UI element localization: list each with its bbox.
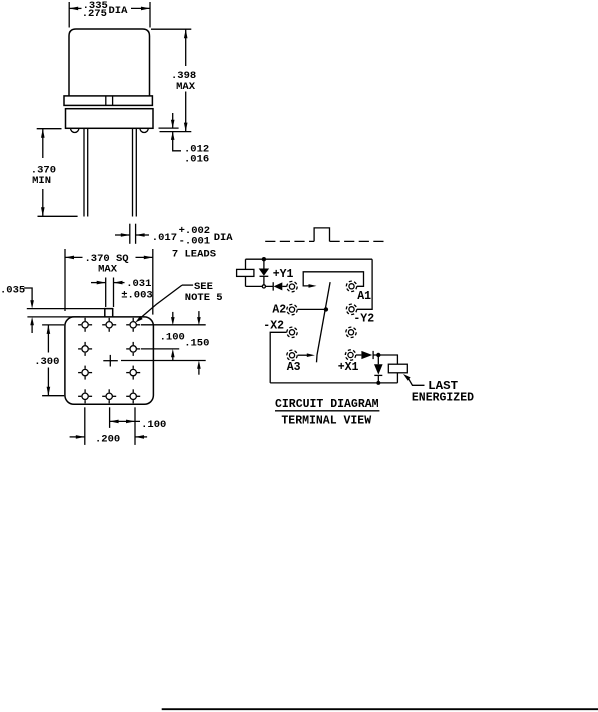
wire -X2 to bottom bus	[270, 332, 286, 383]
wire coil Y branch	[245, 259, 247, 286]
dimension .300 arrows	[47, 325, 49, 353]
diode CR4	[377, 355, 379, 364]
svg-text:MAX: MAX	[176, 81, 196, 93]
svg-text:ENERGIZED: ENERGIZED	[412, 392, 474, 405]
dimension .031 extension lines	[105, 278, 107, 308]
pin row3 col1	[78, 366, 92, 380]
switch armature	[317, 282, 331, 362]
svg-text:MAX: MAX	[98, 264, 118, 276]
dimension .370 MIN extension lines	[37, 128, 62, 130]
junction armature pivot	[324, 307, 328, 311]
dimension .150 arrows	[198, 311, 200, 317]
pin row4 col1	[78, 389, 92, 403]
terminal +X1	[345, 350, 355, 360]
svg-text:NOTE 5: NOTE 5	[185, 292, 223, 304]
svg-text:+Y1: +Y1	[273, 268, 294, 281]
svg-text:±.003: ±.003	[121, 290, 153, 302]
coil X	[388, 364, 407, 373]
bottom extension lines	[84, 407, 86, 445]
lead left	[83, 128, 85, 216]
svg-text:.100: .100	[141, 419, 166, 431]
relay can body	[69, 29, 150, 96]
svg-text:DIA: DIA	[214, 232, 234, 244]
dimension .370 SQ extension lines	[64, 249, 66, 311]
terminal A2	[287, 304, 297, 314]
pin row1 col1	[78, 318, 92, 332]
dimension .035 leader and arrows	[24, 288, 32, 301]
relay header base	[66, 109, 154, 129]
junction bottom bus	[376, 381, 380, 385]
svg-text:7 LEADS: 7 LEADS	[172, 248, 216, 260]
wire A1 to fixed contact	[303, 272, 363, 287]
leader LAST ENERGIZED	[403, 374, 411, 381]
center crosshair	[103, 360, 118, 362]
svg-text:TERMINAL VIEW: TERMINAL VIEW	[281, 415, 371, 428]
dimension .031 arrows	[91, 282, 106, 284]
pin row2 col1	[78, 342, 92, 356]
svg-text:.200: .200	[95, 434, 120, 446]
svg-text:-Y2: -Y2	[353, 313, 374, 326]
dimension .398 MAX extension line	[151, 28, 191, 30]
extension line base bottom upper	[159, 127, 179, 129]
extension line row2 right	[141, 348, 179, 350]
dimension .100 right arrows	[172, 312, 174, 318]
seal bump right	[140, 128, 148, 132]
case outline dashed right	[330, 240, 387, 242]
extension line tab top	[27, 308, 105, 310]
diode CR1	[263, 259, 265, 268]
relay can flange	[64, 96, 152, 106]
svg-text:MIN: MIN	[32, 175, 51, 187]
dimension .370 SQ arrows	[65, 256, 83, 258]
dimension .335/.275 DIA arrows	[69, 7, 81, 9]
footer rule	[162, 708, 598, 710]
svg-text:.035: .035	[0, 284, 25, 296]
terminal -X2	[287, 327, 297, 337]
svg-text:CIRCUIT DIAGRAM: CIRCUIT DIAGRAM	[275, 398, 379, 411]
svg-text:.017: .017	[152, 232, 177, 244]
dimension .017 extension lines	[129, 224, 131, 244]
node open circle	[262, 285, 265, 288]
pin row3 col3	[126, 366, 140, 380]
svg-text:.275: .275	[82, 8, 107, 20]
flange crimp marks	[105, 96, 107, 106]
svg-text:DIA: DIA	[109, 5, 129, 17]
dimension .370 MIN arrows	[42, 129, 44, 158]
wire to coil X	[378, 355, 397, 383]
pin row2 col3	[126, 342, 140, 356]
pin row4 col3	[126, 389, 140, 403]
pin row1 col3	[126, 318, 140, 332]
extension line row1 right	[141, 324, 206, 326]
wire A3 to fixed contact	[298, 354, 308, 356]
terminal center spare	[346, 327, 356, 337]
wire A2 to armature	[297, 308, 326, 310]
svg-text:-X2: -X2	[263, 320, 284, 333]
svg-text:.016: .016	[184, 154, 209, 166]
dimension .335/.275 DIA extension lines	[68, 2, 70, 28]
extension line center right	[121, 360, 206, 362]
case index tab	[314, 228, 329, 242]
extension line lead shoulder lower	[160, 131, 192, 133]
svg-text:A1: A1	[357, 290, 371, 303]
case outline dashed left	[265, 240, 314, 242]
svg-text:.150: .150	[184, 337, 209, 349]
terminal A1	[346, 281, 356, 291]
dimension .100 bottom arrows	[110, 420, 140, 422]
diode CR2	[272, 282, 274, 290]
svg-text:A3: A3	[287, 361, 301, 374]
index tab	[105, 309, 113, 317]
svg-text:.100: .100	[160, 332, 185, 344]
fixed contact arrow A3	[307, 353, 315, 357]
svg-text:A2: A2	[272, 304, 286, 317]
wire top bus	[246, 258, 373, 260]
title underline	[275, 410, 379, 412]
junction top bus	[262, 257, 266, 261]
seal bump left	[71, 128, 79, 132]
svg-text:+X1: +X1	[338, 361, 359, 374]
extension line package top	[27, 316, 80, 318]
dimension .200 arrows	[70, 436, 85, 438]
wire bottom bus	[270, 382, 397, 384]
terminal A3	[287, 350, 297, 360]
junction diode node	[376, 353, 380, 357]
dimension .017 arrows	[115, 234, 130, 236]
package outline terminal view	[65, 317, 153, 404]
wire -Y2 to top bus	[357, 259, 372, 309]
coil Y	[237, 269, 254, 276]
leader SEE NOTE 5	[182, 284, 193, 286]
wire row1 left	[246, 285, 274, 287]
lead right	[132, 128, 134, 216]
terminal -Y2	[346, 304, 356, 314]
svg-text:.031: .031	[126, 278, 151, 290]
pin row1 col2	[102, 318, 116, 332]
pin row4 col2	[102, 389, 116, 403]
terminal +Y1	[287, 281, 297, 291]
svg-text:.300: .300	[34, 356, 59, 368]
fixed contact arrow A1	[309, 284, 317, 288]
diode CR3	[356, 354, 362, 356]
dimension .398 MAX arrows	[185, 29, 187, 66]
svg-text:-.001: -.001	[179, 235, 211, 247]
dimension .012/.016 arrows	[172, 113, 174, 128]
dimension .300 extension lines	[42, 324, 64, 326]
